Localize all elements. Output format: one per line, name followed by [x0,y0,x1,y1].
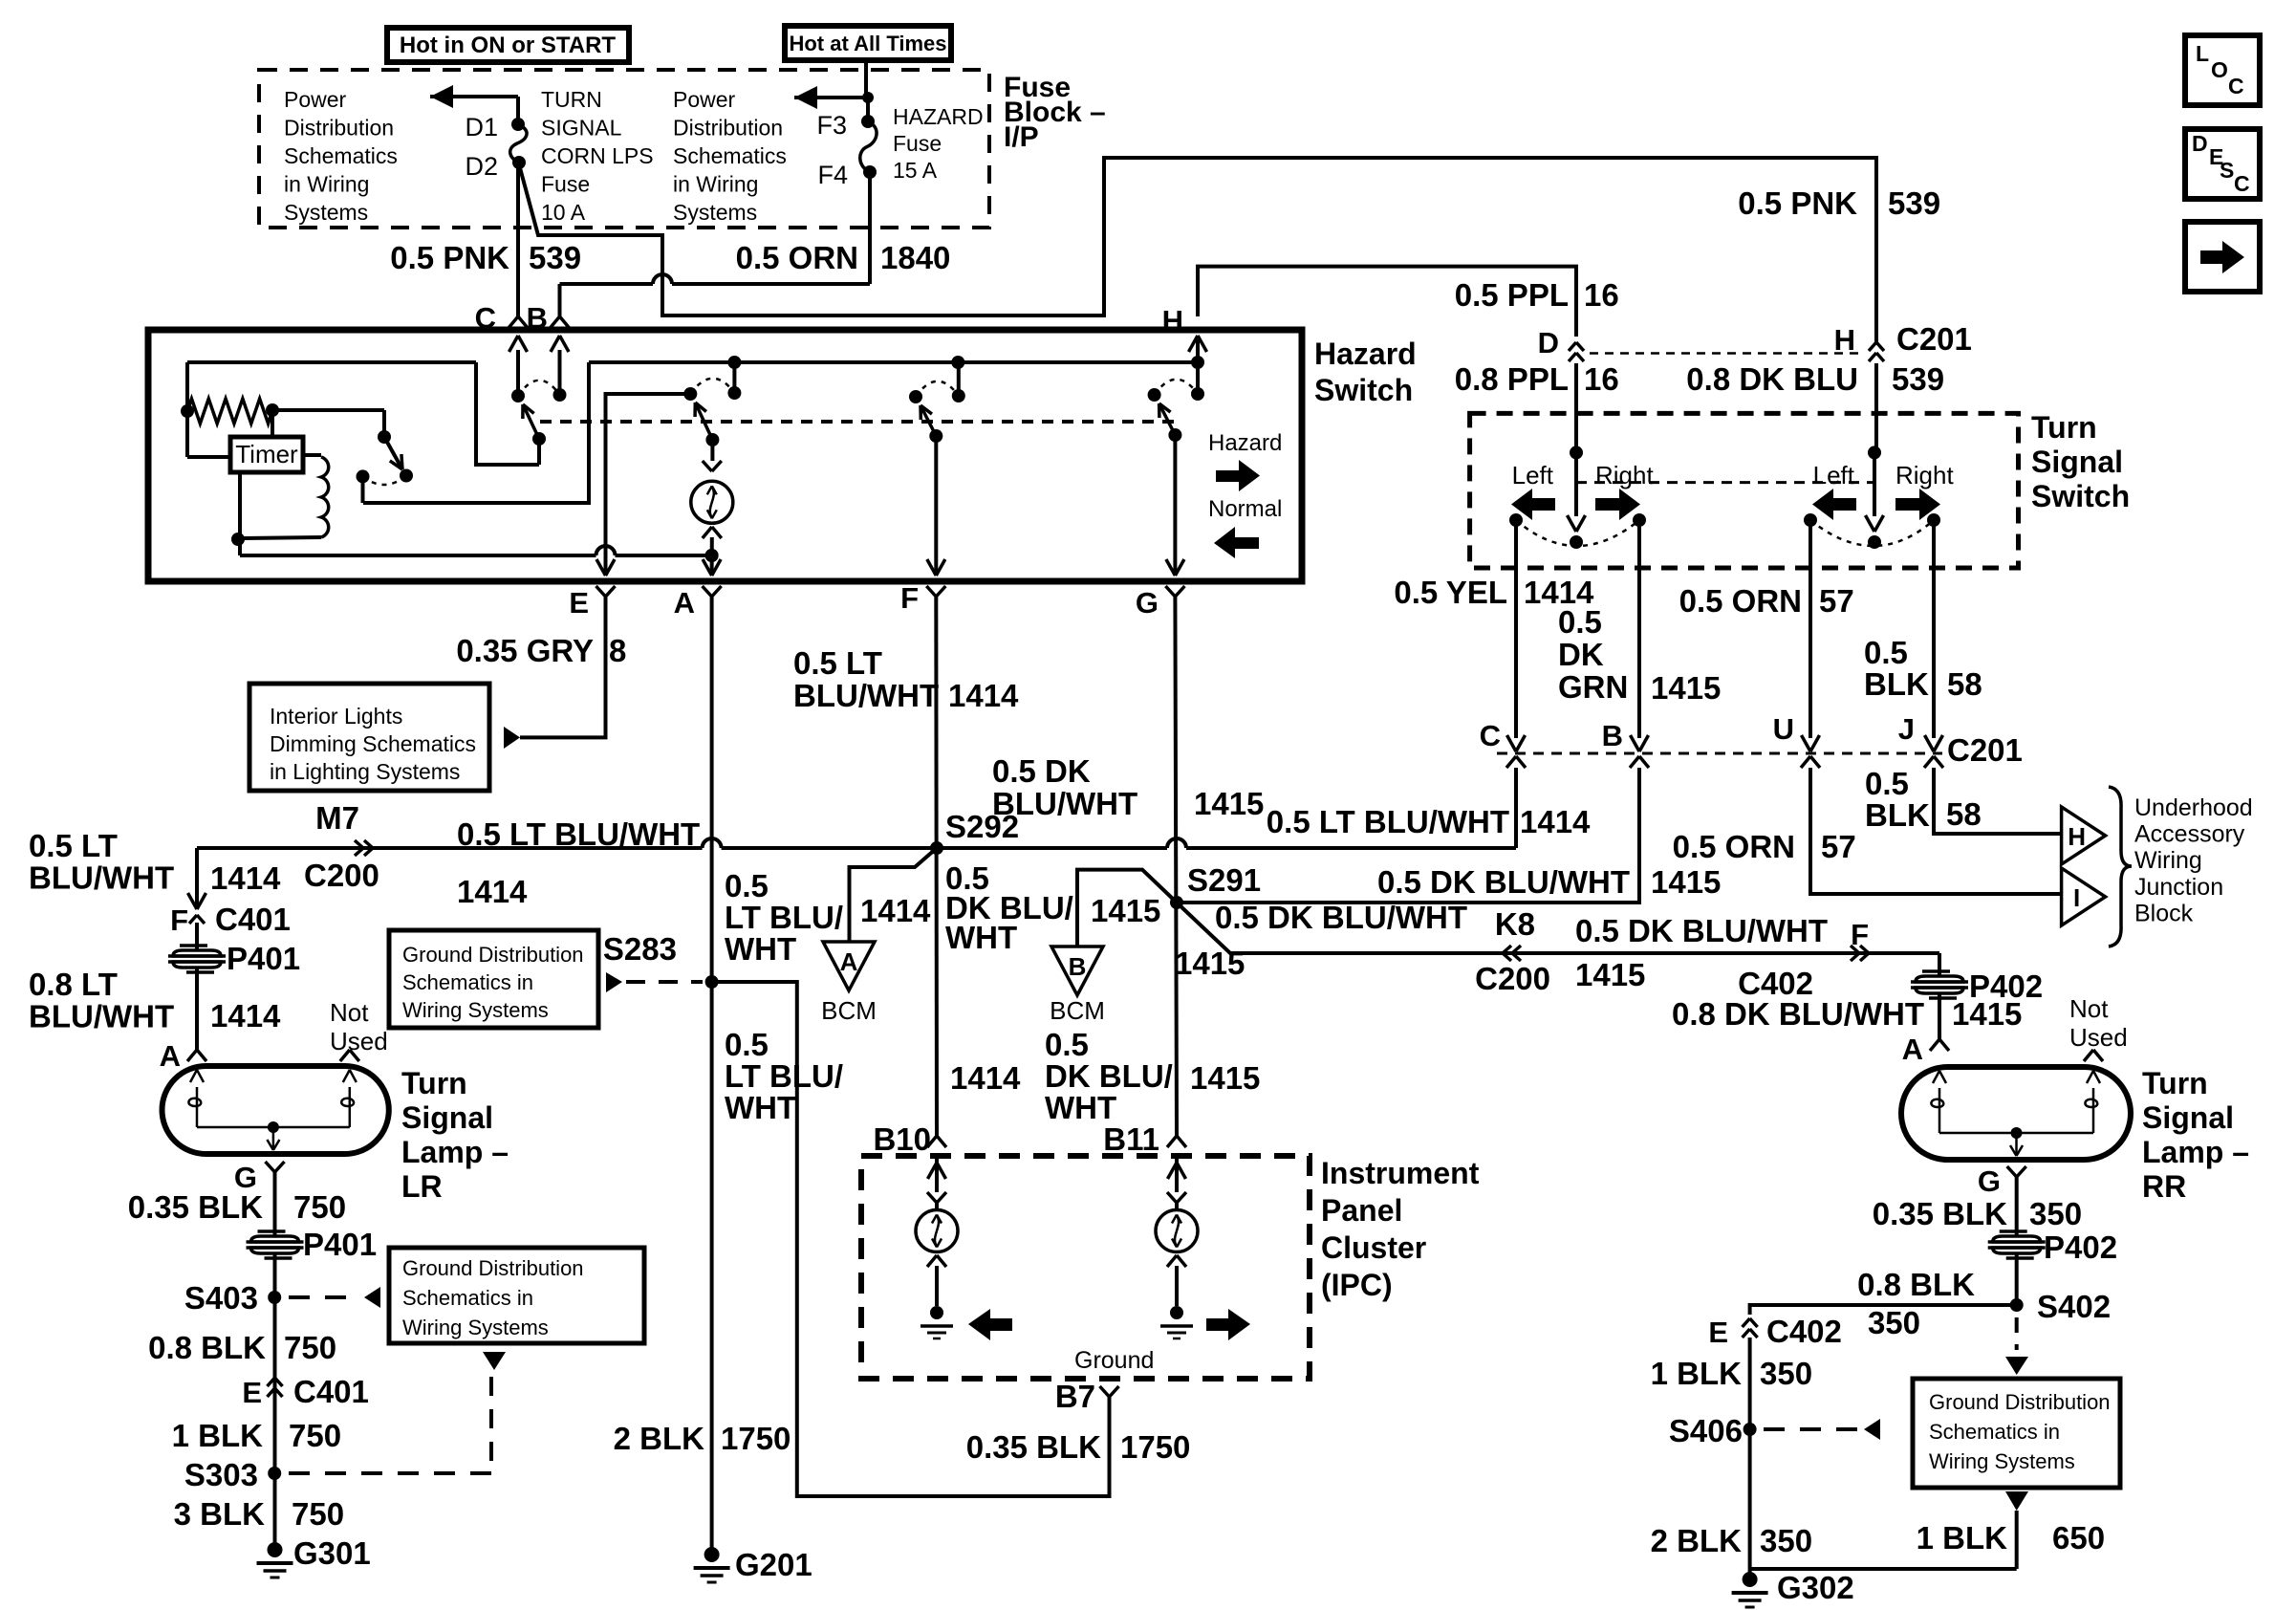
svg-text:Right: Right [1595,461,1654,490]
svg-text:L: L [2196,41,2209,66]
svg-text:0.8 BLK: 0.8 BLK [1857,1267,1975,1302]
svg-text:750: 750 [292,1496,344,1532]
svg-text:B10: B10 [873,1121,931,1157]
svg-text:S: S [2220,158,2234,183]
svg-text:Schematics in: Schematics in [1929,1420,2060,1444]
svg-text:E: E [569,586,589,620]
svg-text:Ground Distribution: Ground Distribution [402,1256,584,1280]
svg-text:539: 539 [1892,361,1944,397]
svg-text:16: 16 [1584,361,1619,397]
svg-text:Wiring Systems: Wiring Systems [402,998,549,1022]
svg-text:0.5 DK BLU/WHT: 0.5 DK BLU/WHT [1575,913,1828,948]
svg-text:I/P: I/P [1004,121,1039,153]
svg-text:BCM: BCM [1050,996,1105,1025]
svg-text:Systems: Systems [284,200,368,225]
svg-text:1415: 1415 [1952,996,2022,1032]
svg-text:C200: C200 [1475,961,1550,996]
svg-text:Turn: Turn [2031,410,2097,445]
svg-text:A: A [840,947,858,976]
svg-text:Wiring: Wiring [2134,847,2202,874]
svg-text:Power: Power [284,87,347,112]
svg-text:BLU/WHT: BLU/WHT [793,678,939,713]
svg-text:P401: P401 [227,941,300,976]
svg-text:S291: S291 [1187,862,1261,898]
svg-text:350: 350 [2029,1196,2082,1231]
svg-text:1414: 1414 [1520,804,1591,839]
svg-text:0.35 GRY: 0.35 GRY [456,633,594,668]
svg-text:F4: F4 [817,161,848,189]
svg-text:S406: S406 [1669,1413,1743,1448]
svg-text:BLU/WHT: BLU/WHT [29,999,174,1034]
svg-text:E: E [1708,1316,1728,1349]
svg-text:1 BLK: 1 BLK [172,1418,264,1453]
svg-text:Junction: Junction [2134,874,2223,901]
svg-text:Interior Lights: Interior Lights [270,704,402,729]
svg-text:1414: 1414 [948,678,1019,713]
svg-text:58: 58 [1946,796,1982,832]
svg-text:Signal: Signal [2142,1100,2234,1135]
svg-text:A: A [160,1039,181,1073]
svg-text:G: G [1978,1164,2001,1198]
svg-text:G302: G302 [1777,1570,1854,1605]
svg-text:Schematics: Schematics [673,143,787,168]
svg-text:0.8 PPL: 0.8 PPL [1455,361,1569,397]
svg-text:WHT: WHT [945,920,1017,955]
svg-text:E: E [242,1376,262,1409]
svg-text:0.5: 0.5 [725,1027,769,1062]
svg-text:Left: Left [1512,461,1554,490]
svg-text:0.5 ORN: 0.5 ORN [736,240,858,275]
svg-text:D: D [1538,326,1559,359]
svg-text:0.5 ORN: 0.5 ORN [1679,583,1802,619]
svg-text:0.5 PPL: 0.5 PPL [1455,277,1569,313]
svg-text:C201: C201 [1896,321,1972,357]
svg-text:B: B [1602,719,1623,752]
svg-text:350: 350 [1760,1523,1812,1558]
svg-text:0.35 BLK: 0.35 BLK [128,1189,263,1225]
svg-text:WHT: WHT [725,931,796,967]
svg-text:P401: P401 [303,1227,377,1262]
svg-text:0.5 DK BLU/WHT: 0.5 DK BLU/WHT [1215,900,1467,935]
svg-text:Accessory: Accessory [2134,821,2245,848]
svg-text:Lamp –: Lamp – [401,1135,509,1169]
svg-text:0.8 DK BLU: 0.8 DK BLU [1686,361,1858,397]
svg-text:S402: S402 [2037,1289,2111,1324]
svg-text:1415: 1415 [1194,786,1264,821]
svg-text:SIGNAL: SIGNAL [541,116,622,141]
svg-text:O: O [2211,57,2228,82]
svg-text:LT BLU/: LT BLU/ [725,900,843,935]
svg-text:0.5 DK BLU/WHT: 0.5 DK BLU/WHT [1377,864,1630,900]
svg-text:Schematics in: Schematics in [402,970,533,994]
svg-text:Left: Left [1813,461,1855,490]
svg-text:Hot in ON or START: Hot in ON or START [400,33,617,58]
svg-text:1414: 1414 [860,893,931,928]
svg-text:Not: Not [330,998,369,1027]
svg-text:0.5: 0.5 [725,868,769,903]
svg-text:0.5: 0.5 [1045,1027,1089,1062]
svg-text:B7: B7 [1055,1379,1095,1414]
svg-text:350: 350 [1760,1356,1812,1391]
svg-text:Schematics in: Schematics in [402,1286,533,1310]
svg-text:58: 58 [1947,666,1982,702]
svg-text:1 BLK: 1 BLK [1651,1356,1743,1391]
svg-text:1414: 1414 [210,998,281,1033]
svg-text:in Wiring: in Wiring [284,172,369,197]
svg-text:0.5: 0.5 [1558,604,1602,640]
svg-text:RR: RR [2142,1169,2186,1204]
svg-text:57: 57 [1821,829,1856,864]
svg-text:1415: 1415 [1651,670,1721,706]
svg-text:Ground Distribution: Ground Distribution [402,943,584,967]
svg-text:57: 57 [1819,583,1854,619]
svg-text:1415: 1415 [1175,946,1245,981]
svg-text:C: C [2234,171,2250,196]
svg-text:0.8 DK BLU/WHT: 0.8 DK BLU/WHT [1672,996,1924,1032]
svg-text:Cluster: Cluster [1321,1230,1426,1265]
svg-text:1414: 1414 [210,860,281,896]
svg-text:0.5 PNK: 0.5 PNK [390,240,509,275]
svg-text:BLK: BLK [1864,666,1929,702]
svg-text:LT BLU/: LT BLU/ [725,1058,843,1094]
svg-text:750: 750 [289,1418,341,1453]
svg-text:Hot at All Times: Hot at All Times [789,32,946,55]
svg-text:in Lighting Systems: in Lighting Systems [270,759,460,784]
svg-text:0.35 BLK: 0.35 BLK [966,1429,1101,1465]
svg-text:750: 750 [284,1330,336,1365]
svg-text:Wiring Systems: Wiring Systems [1929,1449,2075,1473]
svg-text:B11: B11 [1103,1121,1159,1157]
svg-text:0.8 LT: 0.8 LT [29,967,118,1002]
svg-text:WHT: WHT [1045,1090,1116,1125]
svg-text:Dimming Schematics: Dimming Schematics [270,731,476,756]
svg-text:Turn: Turn [2142,1066,2208,1100]
svg-text:A: A [674,586,695,620]
svg-text:539: 539 [529,240,581,275]
svg-text:F: F [170,903,188,937]
svg-text:M7: M7 [315,800,359,836]
svg-text:Systems: Systems [673,200,757,225]
svg-text:1415: 1415 [1575,957,1645,992]
svg-text:0.5 LT BLU/WHT: 0.5 LT BLU/WHT [457,816,700,852]
svg-text:F: F [900,581,919,615]
svg-text:CORN LPS: CORN LPS [541,143,654,168]
svg-text:Right: Right [1895,461,1954,490]
svg-text:15 A: 15 A [893,158,938,183]
svg-text:539: 539 [1888,185,1940,221]
svg-text:I: I [2073,883,2080,912]
svg-text:C401: C401 [293,1374,369,1409]
svg-text:Not: Not [2069,994,2109,1023]
svg-text:Turn: Turn [401,1066,467,1100]
svg-text:H: H [1834,323,1855,357]
svg-text:S292: S292 [945,809,1019,844]
svg-text:Used: Used [330,1027,388,1055]
svg-text:Signal: Signal [2031,445,2123,479]
svg-text:C401: C401 [215,902,291,937]
svg-text:A: A [1902,1033,1923,1066]
svg-text:16: 16 [1584,277,1619,313]
svg-text:Power: Power [673,87,736,112]
svg-text:Lamp –: Lamp – [2142,1135,2249,1169]
svg-text:WHT: WHT [725,1090,796,1125]
svg-text:750: 750 [293,1189,346,1225]
svg-text:HAZARD: HAZARD [893,104,984,129]
svg-text:S403: S403 [184,1280,258,1316]
svg-text:G301: G301 [293,1535,371,1571]
svg-text:0.5 ORN: 0.5 ORN [1673,829,1795,864]
svg-text:B: B [1069,952,1087,981]
svg-text:Wiring Systems: Wiring Systems [402,1316,549,1339]
svg-text:S303: S303 [184,1457,258,1492]
svg-text:650: 650 [2052,1520,2105,1556]
svg-text:Ground: Ground [1074,1347,1154,1374]
svg-text:350: 350 [1868,1305,1920,1340]
svg-text:Signal: Signal [401,1100,493,1135]
svg-text:1415: 1415 [1190,1060,1260,1096]
svg-text:1750: 1750 [721,1421,791,1456]
svg-text:0.5 DK: 0.5 DK [992,753,1091,789]
svg-text:1415: 1415 [1091,893,1160,928]
svg-text:Underhood: Underhood [2134,794,2253,821]
svg-text:DK BLU/: DK BLU/ [1045,1058,1173,1094]
svg-text:in Wiring: in Wiring [673,172,758,197]
svg-text:BCM: BCM [821,996,877,1025]
svg-text:1414: 1414 [457,874,528,909]
svg-text:3 BLK: 3 BLK [174,1496,266,1532]
svg-text:0.5: 0.5 [1865,766,1909,801]
svg-text:(IPC): (IPC) [1321,1268,1393,1302]
svg-text:1 BLK: 1 BLK [1917,1520,2008,1556]
svg-text:Hazard: Hazard [1208,430,1282,456]
svg-text:J: J [1898,712,1915,746]
svg-text:1750: 1750 [1120,1429,1190,1465]
svg-text:Normal: Normal [1208,496,1282,522]
svg-text:C: C [1480,719,1501,752]
svg-text:0.5 LT: 0.5 LT [793,645,882,681]
svg-text:BLK: BLK [1865,797,1930,833]
svg-text:D1: D1 [465,113,498,141]
svg-text:S283: S283 [603,931,677,967]
svg-text:Schematics: Schematics [284,143,398,168]
svg-text:C200: C200 [304,858,379,893]
svg-text:Instrument: Instrument [1321,1156,1480,1190]
svg-text:Fuse: Fuse [893,131,942,156]
svg-text:Block: Block [2134,900,2194,926]
svg-text:0.5 YEL: 0.5 YEL [1394,575,1507,610]
svg-text:1414: 1414 [950,1060,1021,1096]
svg-text:8: 8 [609,633,626,668]
svg-text:DK: DK [1558,637,1604,672]
svg-text:0.8 BLK: 0.8 BLK [148,1330,266,1365]
svg-text:C201: C201 [1947,732,2023,768]
svg-text:0.5 LT: 0.5 LT [29,828,118,863]
svg-text:Switch: Switch [2031,479,2130,513]
svg-text:C: C [2228,74,2244,98]
svg-text:Used: Used [2069,1023,2128,1052]
svg-text:D: D [2192,131,2208,156]
svg-text:LR: LR [401,1169,443,1204]
svg-text:Timer: Timer [235,440,298,468]
svg-text:G: G [1136,586,1159,620]
svg-text:1840: 1840 [880,240,950,275]
svg-text:D2: D2 [465,152,498,181]
svg-text:H: H [2068,822,2086,851]
svg-text:Panel: Panel [1321,1193,1402,1228]
svg-text:G201: G201 [735,1547,812,1582]
svg-text:10 A: 10 A [541,200,586,225]
svg-text:Switch: Switch [1314,373,1413,407]
svg-text:K8: K8 [1495,906,1535,942]
svg-text:0.35 BLK: 0.35 BLK [1873,1196,2007,1231]
svg-text:Distribution: Distribution [284,116,394,141]
svg-text:P402: P402 [2044,1229,2117,1265]
svg-text:0.5: 0.5 [1864,635,1908,670]
svg-text:0.5 LT BLU/WHT: 0.5 LT BLU/WHT [1267,804,1509,839]
svg-text:GRN: GRN [1558,669,1628,705]
svg-text:Distribution: Distribution [673,116,783,141]
svg-text:0.5 PNK: 0.5 PNK [1738,185,1857,221]
svg-text:2 BLK: 2 BLK [614,1421,705,1456]
svg-text:H: H [1162,304,1183,337]
svg-text:C402: C402 [1766,1314,1842,1349]
svg-text:Hazard: Hazard [1314,337,1417,371]
svg-text:BLU/WHT: BLU/WHT [29,860,174,896]
svg-text:Ground Distribution: Ground Distribution [1929,1390,2111,1414]
svg-text:U: U [1773,712,1794,746]
svg-text:TURN: TURN [541,87,602,112]
svg-text:F3: F3 [816,111,847,140]
svg-text:Fuse: Fuse [541,172,590,197]
svg-text:2 BLK: 2 BLK [1651,1523,1743,1558]
svg-text:1415: 1415 [1651,864,1721,900]
